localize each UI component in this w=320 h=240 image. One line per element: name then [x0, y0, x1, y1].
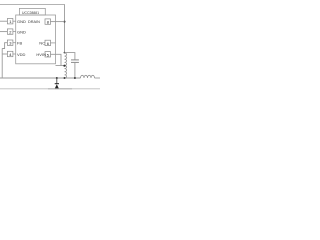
svg-text:FB: FB: [17, 41, 22, 46]
node cap branch junction: [64, 52, 66, 54]
wire FB/VDD ground drop: [1, 49, 3, 79]
wire drain vertical: [64, 4, 66, 53]
op-amp U1 UCC28881 body: [16, 8, 56, 63]
svg-text:UCC28881: UCC28881: [22, 11, 39, 15]
node inductor tap junction: [63, 65, 65, 67]
svg-text:DRAIN: DRAIN: [28, 20, 40, 24]
wire ground rail: [0, 77, 81, 79]
pin 6 NC: [39, 40, 55, 46]
node diode junction: [56, 77, 58, 79]
wire bottom return rail: [0, 88, 100, 90]
pin 3 FB: [2, 40, 22, 49]
pin 1 GND: [0, 19, 26, 25]
capacitor C1: [71, 60, 79, 78]
wire top input rail: [0, 4, 65, 6]
svg-text:VDD: VDD: [17, 52, 26, 57]
svg-text:GND: GND: [17, 30, 26, 35]
node capacitor rail junction: [74, 77, 76, 79]
wire bottom rail near diode: [48, 88, 72, 90]
svg-text:NC: NC: [39, 41, 45, 46]
diode D1: [55, 78, 59, 89]
pin 4 VDD: [2, 51, 25, 57]
node drain junction: [64, 21, 66, 23]
pin 5 HVIN: [36, 52, 64, 66]
pin 8 DRAIN: [28, 19, 65, 25]
inductor L1 vertical: [65, 53, 67, 78]
svg-text:HVIN: HVIN: [36, 52, 46, 57]
pin 2 GND: [0, 29, 26, 35]
wire output: [95, 77, 101, 79]
node inductor rail junction: [64, 77, 66, 79]
wire capacitor branch: [65, 53, 75, 60]
inductor L2 output: [81, 75, 95, 78]
svg-text:GND: GND: [17, 19, 26, 24]
